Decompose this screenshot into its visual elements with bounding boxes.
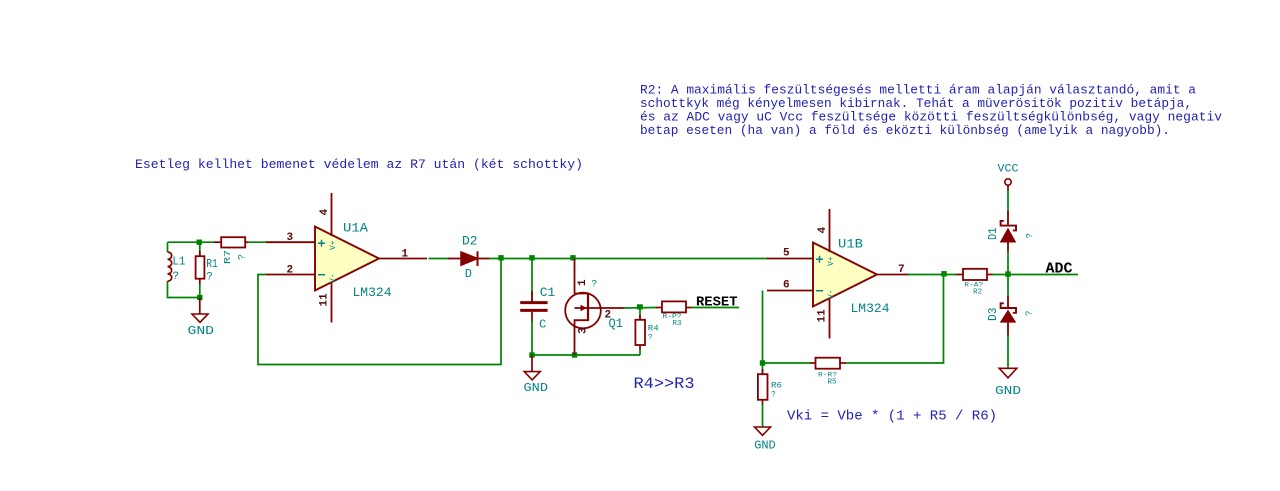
svg-text:?: ? [1025, 311, 1035, 316]
svg-text:GND: GND [995, 384, 1021, 398]
wire D3 to GND [1007, 335, 1009, 368]
op-amp U1A [266, 193, 427, 323]
bottom rail [532, 354, 640, 356]
svg-text:4: 4 [817, 227, 829, 234]
plus mark [318, 242, 325, 244]
node junction C1 top [529, 255, 534, 260]
svg-text:3: 3 [287, 232, 294, 244]
svg-text:11: 11 [319, 293, 331, 307]
svg-text:?: ? [206, 272, 213, 284]
svg-text:R3: R3 [673, 320, 682, 328]
pin 11 power stub [829, 299, 831, 339]
wire U1B out to node [908, 274, 956, 276]
wire top-left rail to R7 and L1 [168, 241, 215, 243]
svg-text:R1: R1 [206, 257, 218, 271]
node junction C1 bottom rail [529, 352, 534, 357]
gate pin [601, 307, 625, 309]
pin 7 output [877, 274, 909, 276]
wire VCC to D1 [1007, 190, 1009, 212]
wire to RESET [691, 307, 739, 309]
svg-text:D1: D1 [986, 228, 1000, 241]
svg-text:V+: V+ [827, 256, 836, 266]
resistor R3 (series to RESET) [656, 301, 692, 328]
svg-text:R4>>R3: R4>>R3 [634, 375, 695, 393]
svg-text:V-: V- [827, 289, 836, 299]
svg-text:R6: R6 [771, 382, 782, 391]
svg-text:V+: V+ [329, 240, 338, 250]
wire L1 branch [167, 242, 169, 252]
node junction top-left [197, 240, 202, 245]
resistor R1 [196, 242, 218, 297]
zener diode D1 [986, 211, 1035, 252]
ground (GND) under C1 [524, 355, 549, 395]
svg-text:V-: V- [329, 273, 338, 283]
svg-text:ADC: ADC [1046, 261, 1073, 278]
channel bar [587, 293, 589, 321]
svg-text:C: C [539, 318, 546, 332]
svg-text:Q1: Q1 [609, 316, 624, 331]
svg-text:R-P?: R-P? [663, 313, 682, 320]
minus mark [816, 290, 823, 292]
resistor R6 [758, 363, 782, 427]
svg-text:5: 5 [783, 248, 790, 260]
svg-text:?: ? [591, 280, 597, 291]
inductor L1 [168, 252, 186, 283]
node junction gate/R4/R3 [637, 304, 643, 309]
svg-text:C1: C1 [540, 285, 556, 300]
svg-text:D: D [465, 267, 472, 281]
pin 1 output [379, 258, 427, 260]
svg-text:D3: D3 [986, 308, 1000, 322]
wire gate to node [624, 307, 657, 310]
ground (GND) under D3 [995, 368, 1021, 398]
svg-text:R-A?: R-A? [964, 281, 983, 288]
transistor Q1 (N-MOSFET, mirrored) [565, 259, 624, 356]
svg-text:LM324: LM324 [851, 301, 890, 316]
node junction R5/R6 [760, 360, 765, 365]
zener diode D3 [986, 296, 1035, 336]
node junction ADC [1005, 271, 1010, 276]
svg-text:?: ? [238, 254, 249, 260]
resistor R4 [635, 308, 659, 356]
capacitor C1 [520, 259, 555, 356]
wire D1 to node [1007, 251, 1009, 297]
resistor R2 [956, 269, 993, 297]
plus mark [816, 258, 823, 260]
wire U1A out to D2 [429, 258, 450, 260]
svg-text:U1A: U1A [343, 220, 368, 235]
svg-text:?: ? [771, 391, 776, 400]
pin 11 power stub [331, 283, 333, 323]
ground (GND) under R1 [188, 298, 215, 339]
svg-text:GND: GND [188, 324, 215, 338]
drain pin [574, 259, 576, 294]
svg-text:1: 1 [577, 279, 589, 286]
pin 6 [767, 290, 813, 292]
minus mark [318, 274, 325, 276]
svg-text:GND: GND [524, 381, 549, 395]
svg-text:R2: R2 [973, 289, 982, 297]
pin 4 power stub [829, 209, 831, 252]
resistor R7 [214, 237, 249, 264]
svg-text:VCC: VCC [998, 164, 1019, 176]
svg-text:betap eseten (ha van) a föld é: betap eseten (ha van) a föld és eközti k… [640, 123, 1170, 138]
pin 2 [266, 274, 315, 276]
pin 5 [767, 258, 813, 260]
svg-text:R5: R5 [828, 379, 837, 387]
svg-text:6: 6 [783, 280, 790, 292]
svg-text:1: 1 [402, 249, 409, 261]
bulk arrow [575, 307, 601, 309]
main rail after D2 [489, 258, 768, 260]
wire feedback U1B [763, 291, 811, 364]
power flag VCC [998, 164, 1019, 192]
wire R7 to U1A pin3 [248, 241, 266, 243]
svg-text:?: ? [172, 271, 179, 283]
diode D2 [448, 234, 490, 282]
svg-text:R-R?: R-R? [818, 372, 837, 379]
wire R2 to ADC node [992, 274, 1078, 276]
svg-text:LM324: LM324 [353, 285, 392, 300]
source pin [575, 320, 589, 355]
node junction U1B output [941, 271, 946, 276]
svg-text:11: 11 [817, 309, 829, 323]
node junction bottom-left [197, 295, 202, 300]
svg-text:D2: D2 [462, 234, 478, 249]
svg-text:2: 2 [287, 264, 294, 276]
svg-text:L1: L1 [172, 255, 185, 269]
resistor R5 [810, 358, 846, 387]
svg-text:R4: R4 [648, 325, 659, 334]
pin 4 power stub [331, 193, 333, 236]
svg-text:7: 7 [898, 264, 905, 276]
body [813, 243, 877, 307]
ground (GND) under R6 [754, 427, 776, 452]
svg-text:RESET: RESET [696, 294, 738, 310]
svg-text:?: ? [648, 334, 653, 343]
node junction Q1 drain [570, 255, 575, 260]
svg-text:U1B: U1B [838, 236, 863, 251]
svg-text:GND: GND [754, 438, 776, 452]
body [315, 227, 379, 291]
node junction after D2 (feedback tap) [498, 255, 503, 260]
svg-text:R7: R7 [222, 250, 233, 264]
pin 3 [266, 241, 315, 243]
wire feedback U1A [258, 259, 501, 365]
svg-text:?: ? [1025, 233, 1035, 238]
note text right (R2 explanation) [640, 83, 1222, 139]
svg-text:Esetleg kellhet bemenet védele: Esetleg kellhet bemenet védelem az R7 ut… [135, 157, 583, 172]
svg-text:4: 4 [319, 209, 331, 216]
op-amp U1B [767, 209, 909, 339]
node junction Q1 source bottom [572, 352, 577, 357]
svg-text:Vki = Vbe * (1 + R5 / R6): Vki = Vbe * (1 + R5 / R6) [787, 408, 997, 424]
svg-text:3: 3 [578, 327, 590, 334]
